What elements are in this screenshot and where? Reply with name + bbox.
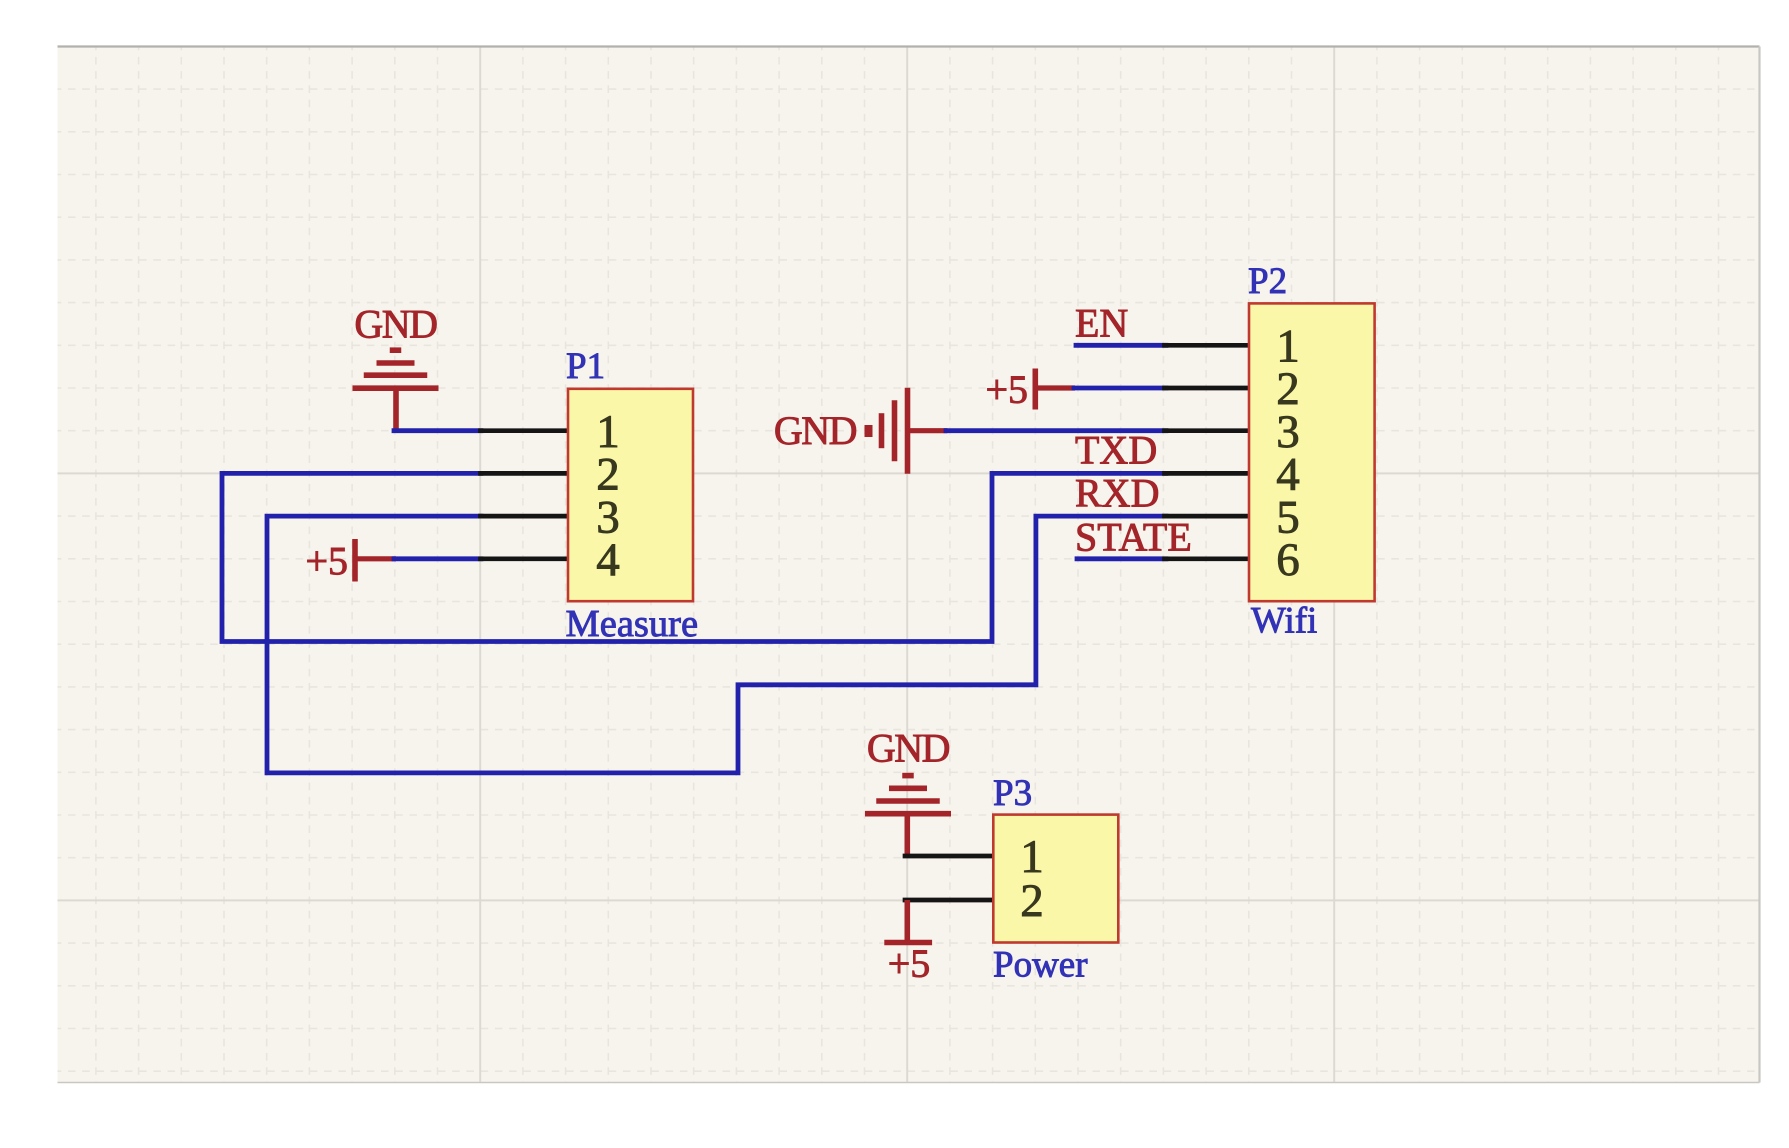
svg-text:GND: GND — [354, 302, 437, 347]
P2 pin 3 stub — [1165, 428, 1251, 433]
svg-text:STATE: STATE — [1075, 515, 1192, 560]
svg-text:GND: GND — [774, 408, 857, 453]
P2 pin 4 stub — [1165, 471, 1251, 476]
wire P2 pin6 (STATE) — [1077, 556, 1166, 561]
svg-text:TXD: TXD — [1075, 428, 1157, 473]
P2 pin 2 stub — [1165, 386, 1251, 391]
P2 pin 1 stub — [1165, 343, 1251, 348]
wire P2 pin1 (EN) — [1076, 343, 1166, 348]
wire P2 pin3 (GND) — [946, 428, 1166, 433]
P1 pin 4 stub — [481, 556, 570, 561]
wire P1 pin1 to GND — [394, 428, 481, 433]
svg-text:+5: +5 — [985, 367, 1028, 412]
P2 pin 6 stub — [1165, 556, 1251, 561]
svg-text:+5: +5 — [888, 941, 931, 986]
connector P2 box — [1249, 303, 1375, 601]
power +5 (below P3 pin2) — [904, 900, 910, 943]
svg-text:GND: GND — [867, 726, 950, 771]
P1 pin 3 stub — [481, 514, 570, 519]
connector P3 box — [993, 815, 1118, 943]
svg-text:2: 2 — [1020, 875, 1044, 927]
svg-text:P3: P3 — [993, 773, 1032, 814]
P3 pin1 stub — [905, 854, 994, 859]
svg-text:+5: +5 — [305, 539, 348, 584]
svg-text:P1: P1 — [566, 346, 605, 387]
wire net TXD: P1 pin2 route — [222, 473, 1166, 641]
P2 pin 5 stub — [1165, 514, 1251, 519]
svg-text:4: 4 — [596, 534, 620, 586]
P3 pin2 stub — [905, 898, 994, 903]
svg-text:Wifi: Wifi — [1251, 601, 1317, 642]
wire P2 pin2 — [1074, 386, 1166, 391]
P1 pin 1 stub — [481, 428, 570, 433]
svg-text:EN: EN — [1075, 301, 1128, 346]
svg-text:6: 6 — [1276, 534, 1300, 586]
wire net RXD: P1 pin3 route — [267, 516, 1166, 773]
P1 pin 2 stub — [481, 471, 570, 476]
wire P1 pin4 — [394, 556, 481, 561]
svg-text:Power: Power — [993, 945, 1088, 986]
sheet border — [58, 45, 1760, 47]
svg-text:RXD: RXD — [1075, 471, 1159, 516]
svg-text:P2: P2 — [1248, 261, 1287, 302]
svg-text:Measure: Measure — [566, 603, 699, 645]
connector P1 box — [568, 389, 693, 601]
